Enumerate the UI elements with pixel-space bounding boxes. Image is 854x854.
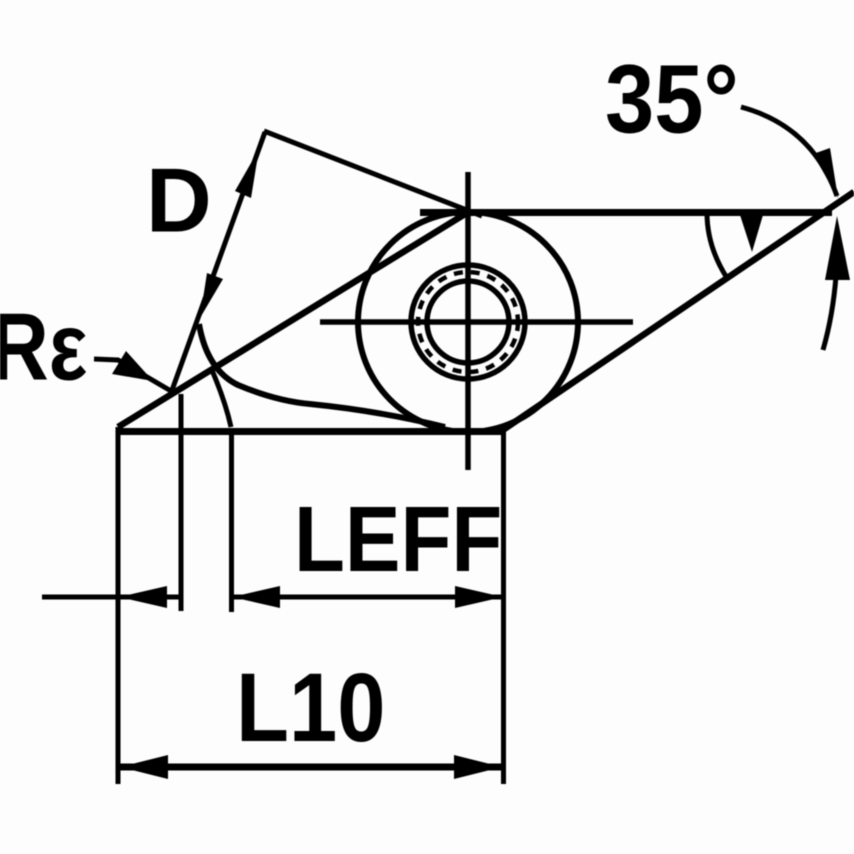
- svg-text:Rε: Rε: [0, 292, 87, 400]
- svg-text:LEFF: LEFF: [294, 487, 502, 591]
- svg-text:D: D: [146, 151, 212, 252]
- svg-text:L10: L10: [236, 655, 385, 763]
- svg-text:35°: 35°: [605, 45, 739, 154]
